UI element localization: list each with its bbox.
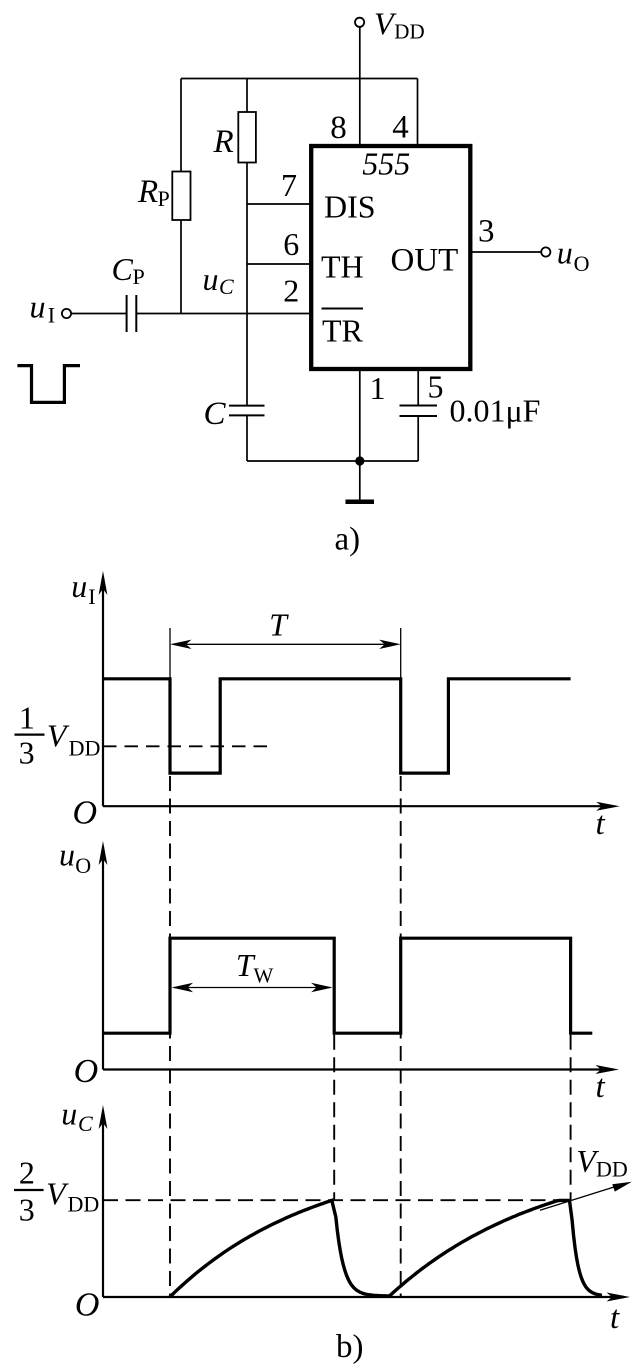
wire pin5 to ground rail bbox=[417, 416, 419, 461]
one third VDD dashed level bbox=[103, 745, 269, 747]
svg-text:t: t bbox=[596, 806, 606, 842]
wire pin 3 output bbox=[470, 251, 541, 253]
input pulse symbol bbox=[17, 366, 80, 403]
svg-text:DD: DD bbox=[596, 1156, 628, 1181]
svg-text:O: O bbox=[73, 794, 98, 831]
output terminal uO bbox=[541, 247, 550, 256]
junction dot bbox=[355, 456, 364, 465]
svg-text:2: 2 bbox=[19, 1154, 35, 1190]
svg-text:C: C bbox=[112, 251, 134, 287]
svg-text:I: I bbox=[48, 302, 55, 327]
svg-text:P: P bbox=[133, 264, 145, 289]
svg-text:C: C bbox=[204, 396, 227, 432]
two thirds VDD dashed level bbox=[103, 1199, 571, 1201]
svg-text:b): b) bbox=[336, 1329, 364, 1365]
svg-text:C: C bbox=[78, 1111, 93, 1136]
svg-text:TR: TR bbox=[322, 313, 364, 349]
wire rail to RP bbox=[180, 79, 182, 172]
svg-text:2: 2 bbox=[283, 273, 299, 309]
svg-text:R: R bbox=[137, 174, 158, 210]
svg-text:u: u bbox=[71, 568, 87, 604]
svg-text:OUT: OUT bbox=[391, 243, 459, 279]
svg-text:O: O bbox=[75, 1287, 100, 1324]
svg-text:u: u bbox=[30, 289, 46, 325]
555 timer IC U1 box bbox=[311, 146, 470, 369]
wire pin 4 bbox=[417, 79, 419, 147]
svg-text:O: O bbox=[75, 853, 91, 878]
svg-text:T: T bbox=[269, 607, 289, 643]
svg-text:3: 3 bbox=[19, 1192, 35, 1228]
svg-text:3: 3 bbox=[19, 735, 35, 771]
svg-text:1: 1 bbox=[19, 699, 35, 735]
wire pin 6 bbox=[247, 263, 311, 265]
VDD asymptote arrow bbox=[540, 1186, 618, 1211]
uO waveform bbox=[103, 938, 592, 1033]
resistor R bbox=[238, 112, 256, 163]
capacitor C bbox=[229, 405, 265, 407]
uC axes bbox=[103, 1296, 624, 1298]
wire bottom ground rail bbox=[247, 460, 418, 462]
dashed construction line t2 bbox=[333, 1035, 335, 1200]
T dimension arrow bbox=[174, 643, 397, 645]
input terminal uI bbox=[62, 309, 71, 318]
TW dimension arrow bbox=[174, 987, 330, 989]
wire top rail bbox=[181, 78, 418, 80]
uC exponential waveform bbox=[170, 1200, 602, 1297]
svg-text:V: V bbox=[47, 718, 70, 754]
capacitor 0.01uF bbox=[400, 405, 438, 407]
svg-text:I: I bbox=[88, 584, 95, 609]
svg-text:W: W bbox=[254, 964, 274, 988]
wire uI to CP bbox=[71, 313, 126, 315]
svg-text:4: 4 bbox=[392, 110, 409, 146]
dashed construction line t4 bbox=[570, 1035, 572, 1200]
svg-text:P: P bbox=[158, 186, 170, 211]
svg-text:C: C bbox=[219, 274, 234, 299]
svg-text:6: 6 bbox=[283, 226, 299, 262]
svg-text:7: 7 bbox=[281, 167, 297, 203]
svg-text:8: 8 bbox=[330, 110, 347, 146]
svg-text:555: 555 bbox=[362, 146, 410, 182]
svg-text:u: u bbox=[203, 261, 219, 297]
resistor RP bbox=[172, 172, 190, 221]
svg-text:TH: TH bbox=[321, 249, 364, 285]
svg-text:DD: DD bbox=[68, 1191, 100, 1216]
svg-text:DD: DD bbox=[69, 736, 101, 761]
ground bbox=[359, 461, 361, 500]
wire pin 5 bbox=[417, 369, 419, 406]
wire rail to R bbox=[246, 79, 248, 113]
svg-text:u: u bbox=[61, 1096, 77, 1132]
svg-text:a): a) bbox=[335, 522, 361, 558]
svg-text:3: 3 bbox=[478, 214, 495, 250]
uO axes bbox=[103, 1068, 613, 1070]
wire R to node uC bbox=[246, 163, 248, 406]
dashed construction line t3 bbox=[400, 776, 402, 1297]
svg-text:O: O bbox=[74, 1053, 99, 1090]
svg-text:u: u bbox=[557, 235, 573, 271]
svg-text:t: t bbox=[596, 1069, 606, 1105]
uI axes bbox=[103, 805, 614, 807]
uI waveform bbox=[103, 679, 571, 773]
svg-text:u: u bbox=[59, 837, 75, 873]
dashed construction line t1 bbox=[169, 776, 171, 1297]
wire VDD to pin 8 bbox=[359, 27, 361, 146]
svg-text:R: R bbox=[213, 124, 234, 160]
wire RP to input node bbox=[180, 220, 182, 314]
wire pin 1 bbox=[359, 369, 361, 461]
wire C to ground rail bbox=[246, 415, 248, 461]
T dimension extension lines bbox=[169, 628, 171, 679]
svg-text:V: V bbox=[46, 1175, 69, 1211]
svg-text:1: 1 bbox=[370, 370, 386, 406]
svg-text:0.01μF: 0.01μF bbox=[450, 392, 541, 428]
svg-text:5: 5 bbox=[428, 369, 444, 405]
wire CP to pin 2 bbox=[136, 313, 311, 315]
capacitor CP bbox=[126, 295, 128, 332]
svg-text:DD: DD bbox=[394, 19, 424, 43]
wire pin 7 bbox=[247, 203, 311, 205]
svg-text:O: O bbox=[574, 251, 590, 276]
svg-text:DIS: DIS bbox=[324, 189, 376, 225]
svg-text:t: t bbox=[610, 1300, 620, 1336]
VDD terminal bbox=[355, 18, 364, 27]
